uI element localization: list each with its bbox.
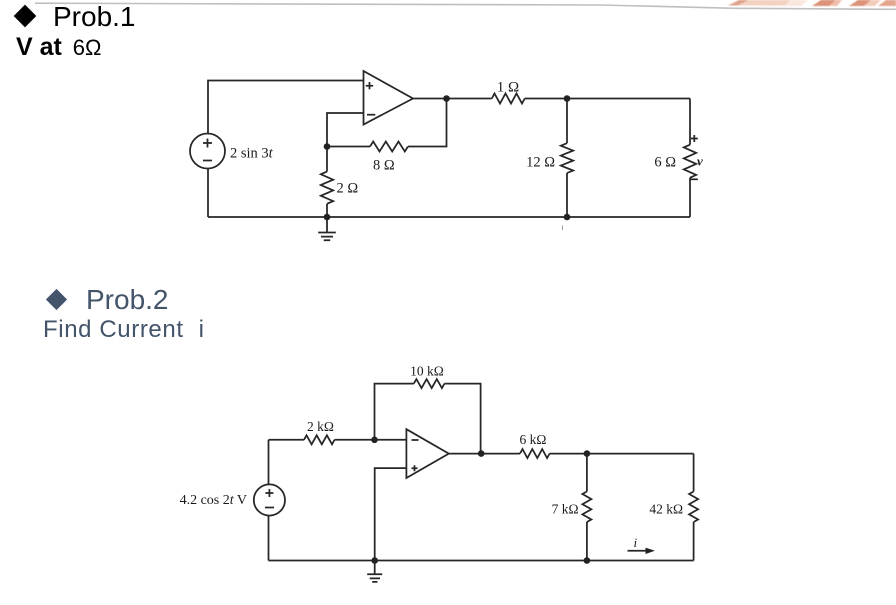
svg-text:6 kΩ: 6 kΩ: [520, 432, 547, 447]
svg-text:42 kΩ: 42 kΩ: [649, 502, 683, 517]
svg-text:8 Ω: 8 Ω: [373, 158, 395, 174]
svg-text:12 Ω: 12 Ω: [526, 155, 555, 171]
svg-text:4.2 cos 2t V: 4.2 cos 2t V: [180, 493, 247, 508]
svg-text:2 sin 3t: 2 sin 3t: [230, 146, 274, 162]
svg-text:v: v: [697, 153, 703, 168]
svg-text:7 kΩ: 7 kΩ: [552, 502, 579, 517]
svg-text:i: i: [634, 535, 638, 550]
svg-text:2 Ω: 2 Ω: [337, 181, 359, 197]
svg-text:6 Ω: 6 Ω: [654, 155, 676, 171]
svg-text:10 kΩ: 10 kΩ: [410, 364, 444, 379]
svg-text:1 Ω: 1 Ω: [497, 80, 519, 96]
svg-text:2 kΩ: 2 kΩ: [307, 419, 334, 434]
